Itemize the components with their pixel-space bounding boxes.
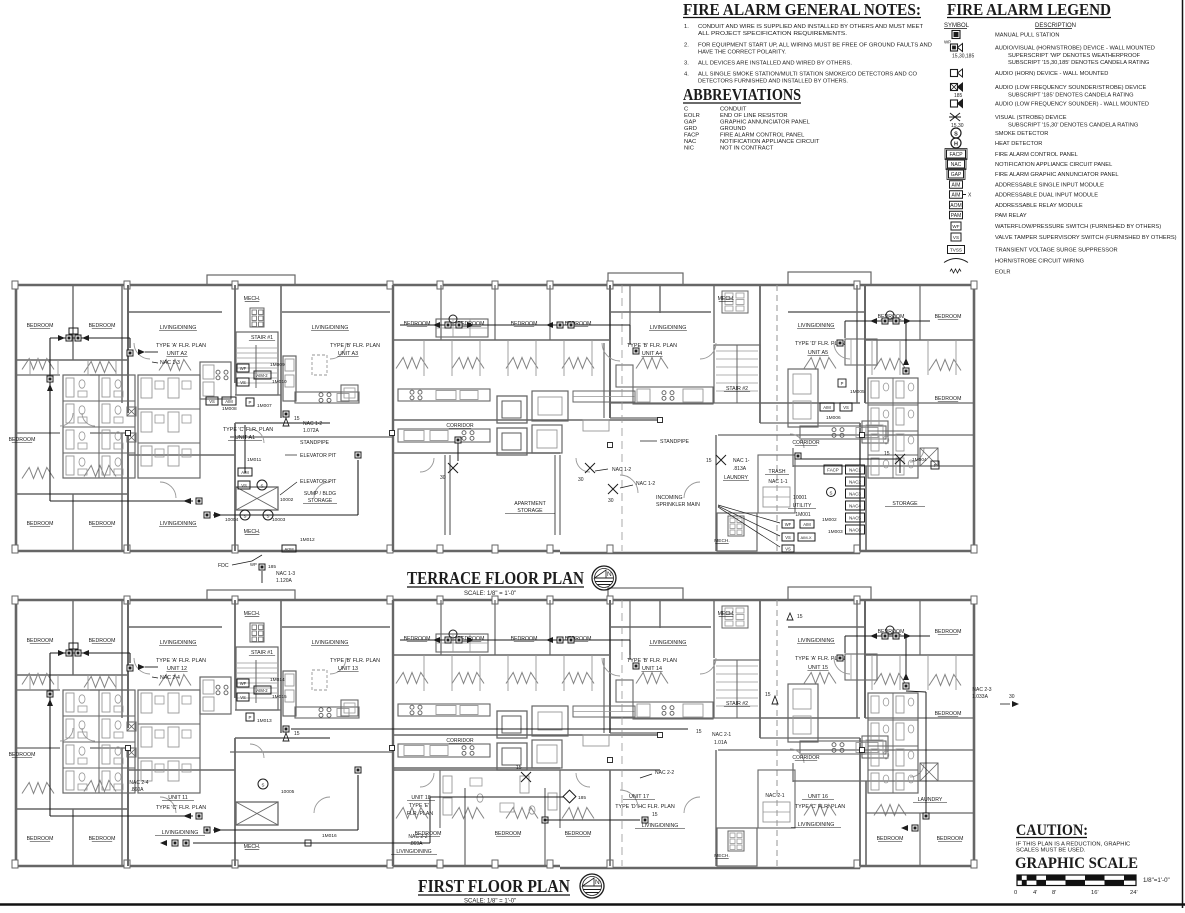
svg-text:BEDROOM: BEDROOM <box>89 521 116 527</box>
svg-text:30: 30 <box>608 498 614 504</box>
sheet border bottom <box>0 903 1185 906</box>
svg-text:WATERFLOW/PRESSURE SWITCH (FUR: WATERFLOW/PRESSURE SWITCH (FURNISHED BY … <box>995 224 1161 230</box>
svg-text:AIM-2: AIM-2 <box>256 373 268 378</box>
AIM symbol <box>950 181 1105 189</box>
FIRST FLOOR PLAN title <box>418 876 570 905</box>
svg-text:PAM: PAM <box>951 213 961 219</box>
svg-text:UNIT 15: UNIT 15 <box>808 665 828 671</box>
svg-text:BEDROOM: BEDROOM <box>27 638 54 644</box>
TVSS symbol <box>948 246 1118 254</box>
svg-text:ELEVATOR PIT: ELEVATOR PIT <box>300 453 337 459</box>
addressable modules near stair 1 <box>237 677 287 724</box>
svg-text:10004: 10004 <box>225 517 239 523</box>
svg-text:MECH.: MECH. <box>714 538 729 544</box>
mech room bottom right <box>717 513 757 551</box>
first floor bottom-center unit walls <box>393 770 660 866</box>
svg-text:P: P <box>249 400 252 405</box>
svg-text:AIM-X: AIM-X <box>800 535 811 540</box>
svg-text:TYPE 'C' FLR. PLAN: TYPE 'C' FLR. PLAN <box>223 427 273 433</box>
svg-text:MECH.: MECH. <box>718 611 735 617</box>
svg-text:GAP: GAP <box>951 172 962 178</box>
unit type labels top <box>156 341 845 357</box>
svg-text:BEDROOM: BEDROOM <box>495 831 522 837</box>
svg-text:BEDROOM: BEDROOM <box>27 836 54 842</box>
svg-text:LAUNDRY: LAUNDRY <box>724 475 748 481</box>
svg-text:1M016: 1M016 <box>322 833 337 839</box>
graphic scale bar <box>1014 875 1170 896</box>
svg-text:NAC 2-1: NAC 2-1 <box>712 732 731 738</box>
window/closet chevron symbols <box>22 673 961 819</box>
svg-text:STAIR #2: STAIR #2 <box>726 701 748 707</box>
svg-text:1.072A: 1.072A <box>303 428 320 434</box>
svg-text:UTILITY: UTILITY <box>793 503 812 509</box>
svg-text:VISUAL (STROBE) DEVICE: VISUAL (STROBE) DEVICE <box>995 115 1067 121</box>
svg-text:P: P <box>934 463 937 468</box>
svg-text:BEDROOM: BEDROOM <box>935 629 962 635</box>
type C unit labels <box>223 427 273 441</box>
svg-text:CONDUIT: CONDUIT <box>720 107 747 113</box>
svg-text:NAC 2-3: NAC 2-3 <box>972 687 991 693</box>
title: FIRE ALARM GENERAL NOTES <box>683 0 921 19</box>
svg-text:1M003: 1M003 <box>828 529 843 535</box>
svg-text:ALL PROJECT SPECIFICATION REQU: ALL PROJECT SPECIFICATION REQUIREMENTS. <box>698 31 847 37</box>
svg-text:15: 15 <box>294 731 300 737</box>
svg-text:SUBSCRIPT '185' DENOTES CANDEL: SUBSCRIPT '185' DENOTES CANDELA RATING <box>1008 92 1134 98</box>
LF sounder/strobe symbol <box>951 83 1147 99</box>
svg-text:SCALES MUST BE USED.: SCALES MUST BE USED. <box>1016 848 1086 854</box>
svg-text:BEDROOM: BEDROOM <box>9 437 36 443</box>
svg-text:UNIT A5: UNIT A5 <box>808 350 828 356</box>
svg-text:MECH.: MECH. <box>244 296 261 302</box>
svg-text:EOLR: EOLR <box>995 270 1011 276</box>
svg-text:TYPE 'D' HC FLR. PLAN: TYPE 'D' HC FLR. PLAN <box>615 804 675 810</box>
sheet border right <box>1182 0 1184 908</box>
svg-text:SMOKE DETECTOR: SMOKE DETECTOR <box>995 131 1048 137</box>
smoke detector circle mid <box>258 779 337 846</box>
NAC wiring right unit <box>837 626 930 689</box>
svg-text:NAC6: NAC6 <box>849 528 861 533</box>
NAC wiring unit A2 <box>127 664 180 681</box>
circuit wiring symbol <box>944 259 1084 265</box>
svg-text:TYPE 'C' FLR. PLAN: TYPE 'C' FLR. PLAN <box>156 805 206 811</box>
svg-text:24': 24' <box>1130 890 1138 896</box>
svg-text:VS: VS <box>209 399 215 404</box>
svg-text:CORRIDOR: CORRIDOR <box>446 423 474 429</box>
svg-text:.813A: .813A <box>733 466 747 472</box>
svg-text:FLR. PLAN: FLR. PLAN <box>407 811 433 817</box>
svg-text:BEDROOM: BEDROOM <box>511 321 538 327</box>
GRAPHIC SCALE heading <box>1015 855 1138 872</box>
svg-text:APARTMENT: APARTMENT <box>514 501 546 507</box>
svg-text:AIM: AIM <box>803 522 811 527</box>
svg-text:UNIT A4: UNIT A4 <box>642 351 662 357</box>
svg-text:BEDROOM: BEDROOM <box>935 396 962 402</box>
svg-text:NAC 1-2: NAC 1-2 <box>636 481 655 487</box>
svg-text:ADDRESSABLE SINGLE INPUT MODUL: ADDRESSABLE SINGLE INPUT MODULE <box>995 183 1104 189</box>
NAC wiring right unit <box>837 311 930 374</box>
TERRACE FLOOR PLAN title <box>407 568 584 597</box>
svg-text:FACP: FACP <box>949 152 963 158</box>
svg-text:BEDROOM: BEDROOM <box>89 836 116 842</box>
svg-text:NAC5: NAC5 <box>849 516 861 521</box>
svg-text:ELEVATOR PIT: ELEVATOR PIT <box>300 479 337 485</box>
svg-text:NAC 1-1: NAC 1-1 <box>768 479 787 485</box>
svg-text:1.120A: 1.120A <box>276 578 293 584</box>
svg-text:S: S <box>261 484 264 489</box>
svg-text:ABBREVIATIONS: ABBREVIATIONS <box>683 85 801 104</box>
svg-text:CONDUIT AND WIRE IS SUPPLIED A: CONDUIT AND WIRE IS SUPPLIED AND INSTALL… <box>698 24 923 30</box>
utility room walls right <box>793 448 974 551</box>
svg-text:STAIR #1: STAIR #1 <box>251 650 273 656</box>
standpipe wiring mid <box>440 437 631 483</box>
svg-text:AOM: AOM <box>950 203 961 209</box>
svg-text:BEDROOM: BEDROOM <box>9 752 36 758</box>
corridor labels <box>446 423 820 446</box>
TERRACE floor plan <box>12 272 977 553</box>
svg-text:185: 185 <box>578 795 586 801</box>
stair core STAIR 2 <box>714 606 760 718</box>
svg-text:WP: WP <box>250 562 257 567</box>
scattered module labels <box>283 692 778 741</box>
NAC wiring circuit left <box>47 328 361 518</box>
svg-text:CORRIDOR: CORRIDOR <box>446 738 474 744</box>
svg-text:AIM: AIM <box>952 193 961 199</box>
svg-text:GAP: GAP <box>684 120 696 126</box>
svg-text:15: 15 <box>884 451 890 457</box>
svg-text:S: S <box>262 783 265 788</box>
svg-text:LIVING/DINING: LIVING/DINING <box>312 640 349 646</box>
corridor labels <box>446 738 820 761</box>
svg-text:TVSS: TVSS <box>950 248 962 253</box>
svg-text:AUDIO (LOW FREQUENCY SOUNDER): AUDIO (LOW FREQUENCY SOUNDER) - WALL MOU… <box>995 102 1149 108</box>
svg-text:15: 15 <box>294 416 300 422</box>
NAC wiring mid bedrooms <box>400 630 639 669</box>
svg-text:15: 15 <box>516 765 522 771</box>
svg-text:NOTIFICATION APPLIANCE CIRCUIT: NOTIFICATION APPLIANCE CIRCUIT <box>720 139 820 145</box>
svg-text:VS: VS <box>785 547 791 552</box>
svg-text:30: 30 <box>1009 694 1015 700</box>
svg-text:H: H <box>954 141 958 147</box>
EOLR symbol <box>950 269 1011 276</box>
NAC wiring mid bedrooms <box>400 315 639 354</box>
svg-text:NOT IN CONTRACT: NOT IN CONTRACT <box>720 146 774 152</box>
AOM symbol <box>950 201 1083 209</box>
heat detector symbol <box>951 138 1042 148</box>
svg-text:MECH.: MECH. <box>718 296 735 302</box>
addressable modules near stair 1 <box>237 362 287 409</box>
audio horn symbol <box>951 69 1109 77</box>
laundry strobe <box>706 455 750 472</box>
svg-text:VS: VS <box>785 535 791 540</box>
svg-text:S: S <box>954 131 958 137</box>
svg-text:NOTIFICATION APPLIANCE CIRCUIT: NOTIFICATION APPLIANCE CIRCUIT PANEL <box>995 162 1112 168</box>
right apartment bath cluster <box>868 693 938 793</box>
stair core STAIR 1 <box>236 623 278 710</box>
svg-text:1M010: 1M010 <box>272 379 287 385</box>
svg-text:1M012: 1M012 <box>300 537 315 543</box>
manual pull station symbol <box>952 31 1059 39</box>
room labels <box>9 296 962 544</box>
svg-text:BEDROOM: BEDROOM <box>415 831 442 837</box>
misc wall devices <box>126 418 865 448</box>
svg-text:PAM RELAY: PAM RELAY <box>995 213 1027 219</box>
NAC 2-3 labels right <box>972 687 1019 707</box>
svg-text:STORAGE: STORAGE <box>308 498 333 504</box>
svg-text:LIVING/DINING: LIVING/DINING <box>396 849 431 855</box>
svg-text:P: P <box>841 381 844 386</box>
svg-text:16': 16' <box>1091 890 1099 896</box>
title: FIRE ALARM LEGEND <box>947 0 1111 19</box>
kitchen counters and fixtures center <box>200 634 888 770</box>
svg-text:UNIT A2: UNIT A2 <box>167 351 187 357</box>
misc wall devices <box>126 733 865 763</box>
svg-text:NAC 1-2: NAC 1-2 <box>612 467 631 473</box>
svg-text:ALL SINGLE SMOKE STATION/MULTI: ALL SINGLE SMOKE STATION/MULTI STATION S… <box>698 72 917 78</box>
first floor right wiring <box>787 613 929 831</box>
svg-text:GRD: GRD <box>684 126 697 132</box>
svg-text:ALL DEVICES ARE INSTALLED AND: ALL DEVICES ARE INSTALLED AND WIRED BY O… <box>698 61 852 67</box>
svg-text:NAC 2-4: NAC 2-4 <box>160 675 180 681</box>
svg-text:BEDROOM: BEDROOM <box>937 836 964 842</box>
svg-text:BEDROOM: BEDROOM <box>89 638 116 644</box>
scattered module labels <box>283 379 865 434</box>
svg-text:STORAGE: STORAGE <box>892 501 918 507</box>
svg-text:FOR EQUIPMENT START UP, ALL WI: FOR EQUIPMENT START UP, ALL WIRING MUST … <box>698 43 932 49</box>
svg-text:4.: 4. <box>684 72 689 78</box>
svg-text:SUBSCRIPT '15,30,185' DENOTES: SUBSCRIPT '15,30,185' DENOTES CANDELA RA… <box>1008 60 1149 66</box>
svg-text:10001: 10001 <box>793 495 807 501</box>
unit type labels top <box>156 656 845 672</box>
LF sounder symbol <box>951 100 1150 108</box>
abbreviations list <box>684 107 820 152</box>
svg-text:15: 15 <box>797 614 803 620</box>
svg-text:1M009: 1M009 <box>270 362 285 368</box>
svg-text:LIVING/DINING: LIVING/DINING <box>160 521 197 527</box>
closet partition stubs <box>30 340 956 376</box>
corridor <box>621 600 623 866</box>
svg-text:STAIR #1: STAIR #1 <box>251 335 273 341</box>
svg-text:AUDIO (HORN) DEVICE - WALL MOU: AUDIO (HORN) DEVICE - WALL MOUNTED <box>995 71 1108 77</box>
svg-text:CAUTION:: CAUTION: <box>1016 822 1088 839</box>
svg-text:AIM: AIM <box>952 183 961 189</box>
svg-text:FACP: FACP <box>684 133 699 139</box>
svg-text:GRAPHIC SCALE: GRAPHIC SCALE <box>1015 855 1138 872</box>
svg-text:NAC: NAC <box>951 162 962 168</box>
svg-text:1M008: 1M008 <box>222 406 237 412</box>
svg-text:8': 8' <box>1052 890 1056 896</box>
NAC symbol <box>946 159 1112 170</box>
svg-text:AIM-2: AIM-2 <box>256 688 268 693</box>
svg-text:CORRIDOR: CORRIDOR <box>792 440 820 446</box>
general notes text <box>684 24 932 85</box>
svg-text:15: 15 <box>706 458 712 464</box>
svg-text:185: 185 <box>954 93 963 99</box>
svg-text:NAC 1-2: NAC 1-2 <box>303 421 322 427</box>
svg-text:NIC: NIC <box>684 146 694 152</box>
svg-text:FIRE ALARM GRAPHIC ANNUNCIATOR: FIRE ALARM GRAPHIC ANNUNCIATOR PANEL <box>995 172 1119 178</box>
svg-text:STANDPIPE: STANDPIPE <box>660 439 690 445</box>
svg-text:TYPE 'B' FLR. PLAN: TYPE 'B' FLR. PLAN <box>330 343 380 349</box>
exterior walls <box>12 587 977 868</box>
legend column headers <box>944 23 1076 29</box>
svg-text:TERRACE FLOOR PLAN: TERRACE FLOOR PLAN <box>407 568 584 588</box>
svg-text:1.033A: 1.033A <box>972 694 989 700</box>
svg-text:FIRE ALARM GENERAL NOTES:: FIRE ALARM GENERAL NOTES: <box>683 0 921 19</box>
svg-text:NAC2: NAC2 <box>849 480 861 485</box>
svg-text:HEAT DETECTOR: HEAT DETECTOR <box>995 141 1042 147</box>
svg-text:WF: WF <box>240 681 247 686</box>
svg-text:1M001: 1M001 <box>795 512 811 518</box>
door swing arcs <box>60 343 924 498</box>
north arrow terrace <box>592 566 616 590</box>
svg-text:HORN/STROBE CIRCUIT WIRING: HORN/STROBE CIRCUIT WIRING <box>995 259 1084 265</box>
svg-text:LAUNDRY: LAUNDRY <box>918 797 943 803</box>
svg-text:WF: WF <box>952 224 959 229</box>
svg-text:NAC: NAC <box>684 139 696 145</box>
svg-text:BEDROOM: BEDROOM <box>27 521 54 527</box>
svg-text:FIRE ALARM CONTROL PANEL: FIRE ALARM CONTROL PANEL <box>720 133 805 139</box>
svg-text:NAC 1-3: NAC 1-3 <box>276 571 295 577</box>
svg-text:STANDPIPE: STANDPIPE <box>300 440 330 446</box>
svg-text:30: 30 <box>440 475 446 481</box>
right apartment bath cluster <box>868 378 938 478</box>
svg-text:15,30,185: 15,30,185 <box>952 54 974 60</box>
trash room <box>758 770 795 828</box>
svg-text:N: N <box>607 571 612 578</box>
svg-text:VS: VS <box>953 235 959 240</box>
terrace-only labels <box>280 439 925 514</box>
svg-text:FIRST FLOOR PLAN: FIRST FLOOR PLAN <box>418 876 570 896</box>
svg-text:SPRINKLER MAIN: SPRINKLER MAIN <box>656 502 700 508</box>
exterior walls <box>12 272 977 553</box>
svg-text:1M002: 1M002 <box>822 517 837 523</box>
svg-text:15: 15 <box>652 812 658 818</box>
svg-text:S: S <box>267 514 270 519</box>
svg-text:TYPE 'C' FLR. PLAN: TYPE 'C' FLR. PLAN <box>795 804 845 810</box>
svg-text:TYPE 'A' FLR. PLAN: TYPE 'A' FLR. PLAN <box>156 658 206 664</box>
svg-text:NAC 1-3: NAC 1-3 <box>160 360 180 366</box>
FACP symbol <box>945 149 1078 160</box>
svg-text:NAC4: NAC4 <box>849 504 861 509</box>
incoming sprinkler detail <box>718 505 843 552</box>
svg-text:CORRIDOR: CORRIDOR <box>792 755 820 761</box>
FDC assembly below plan <box>218 555 295 584</box>
svg-text:MECH.: MECH. <box>244 611 261 617</box>
stair core STAIR 2 <box>714 291 760 403</box>
WF symbol <box>951 222 1161 230</box>
svg-text:SCALE: 1/8" = 1'-0": SCALE: 1/8" = 1'-0" <box>464 591 516 597</box>
svg-text:LIVING/DINING: LIVING/DINING <box>650 325 687 331</box>
svg-text:SUMP / BLDG: SUMP / BLDG <box>304 491 336 497</box>
svg-text:1.01A: 1.01A <box>714 740 728 746</box>
svg-text:NAC 2-1: NAC 2-1 <box>765 793 784 799</box>
svg-text:BEDROOM: BEDROOM <box>935 711 962 717</box>
svg-text:NAC 2-2: NAC 2-2 <box>655 770 674 776</box>
svg-text:SCALE: 1/8" = 1'-0": SCALE: 1/8" = 1'-0" <box>464 899 516 905</box>
svg-text:END OF LINE RESISTOR: END OF LINE RESISTOR <box>720 113 788 119</box>
svg-text:STORAGE: STORAGE <box>517 508 543 514</box>
svg-text:MECH.: MECH. <box>244 529 261 535</box>
svg-text:BEDROOM: BEDROOM <box>935 314 962 320</box>
svg-text:1M006: 1M006 <box>826 415 841 421</box>
svg-text:BEDROOM: BEDROOM <box>404 636 431 642</box>
smoke detector symbol <box>951 128 1048 138</box>
svg-text:MECH.: MECH. <box>714 853 729 859</box>
svg-text:WF: WF <box>785 522 792 527</box>
svg-text:DETECTORS FURNISHED AND INSTAL: DETECTORS FURNISHED AND INSTALLED BY OTH… <box>698 79 848 85</box>
svg-text:10005: 10005 <box>281 789 295 795</box>
svg-text:VS: VS <box>240 380 246 385</box>
svg-text:S: S <box>244 514 247 519</box>
svg-text:EOLR: EOLR <box>684 113 700 119</box>
svg-text:UNIT 13: UNIT 13 <box>338 666 358 672</box>
stair core STAIR 1 <box>236 308 278 395</box>
VS symbol <box>951 233 1177 241</box>
svg-text:4': 4' <box>1033 890 1037 896</box>
apartment storage columns <box>445 455 560 535</box>
storage strobe 30 <box>608 481 655 504</box>
first floor mid-bottom devices <box>160 765 674 846</box>
svg-text:LIVING/DINING: LIVING/DINING <box>650 640 687 646</box>
svg-text:30: 30 <box>578 477 584 483</box>
svg-text:C: C <box>684 107 688 113</box>
svg-text:1M015: 1M015 <box>272 694 287 700</box>
svg-text:ADDRESSABLE DUAL INPUT MODULE: ADDRESSABLE DUAL INPUT MODULE <box>995 193 1098 199</box>
svg-text:NAC3: NAC3 <box>849 492 861 497</box>
svg-text:BEDROOM: BEDROOM <box>404 321 431 327</box>
svg-text:1.: 1. <box>684 24 689 30</box>
svg-text:1M007: 1M007 <box>257 403 272 409</box>
svg-text:BEDROOM: BEDROOM <box>511 636 538 642</box>
svg-text:1M005: 1M005 <box>850 389 865 395</box>
svg-text:HAVE THE CORRECT POLARITY.: HAVE THE CORRECT POLARITY. <box>698 50 786 56</box>
svg-text:WF: WF <box>240 366 247 371</box>
svg-text:VS: VS <box>240 695 246 700</box>
svg-text:BEDROOM: BEDROOM <box>565 831 592 837</box>
svg-text:MANUAL PULL STATION: MANUAL PULL STATION <box>995 33 1059 39</box>
strobe symbol <box>949 113 1138 129</box>
svg-text:.869A: .869A <box>409 841 423 847</box>
svg-text:UNIT 14: UNIT 14 <box>642 666 662 672</box>
svg-text:LIVING/DINING: LIVING/DINING <box>798 638 835 644</box>
kitchen counters and fixtures center <box>200 319 888 455</box>
GAP symbol <box>947 169 1119 180</box>
elevator shaft <box>236 487 278 510</box>
corridor <box>621 285 623 551</box>
svg-text:BEDROOM: BEDROOM <box>27 323 54 329</box>
svg-text:UNIT 17: UNIT 17 <box>629 794 649 800</box>
svg-text:LIVING/DINING: LIVING/DINING <box>312 325 349 331</box>
svg-text:UNIT 18: UNIT 18 <box>411 795 430 801</box>
svg-text:BEDROOM: BEDROOM <box>89 323 116 329</box>
door swing arcs <box>60 658 924 813</box>
title: ABBREVIATIONS <box>683 85 801 104</box>
svg-text:15: 15 <box>765 692 771 698</box>
room labels <box>9 611 962 859</box>
svg-text:FIRE ALARM LEGEND: FIRE ALARM LEGEND <box>947 0 1111 19</box>
svg-text:1M011: 1M011 <box>247 457 262 463</box>
svg-text:P: P <box>249 715 252 720</box>
svg-text:SUBSCRIPT '15,30' DENOTES CAND: SUBSCRIPT '15,30' DENOTES CANDELA RATING <box>1008 122 1138 128</box>
svg-text:TYPE 'E': TYPE 'E' <box>409 803 429 809</box>
svg-text:FDC: FDC <box>218 563 229 569</box>
svg-text:0: 0 <box>1014 890 1017 896</box>
svg-text:LIVING/DINING: LIVING/DINING <box>162 830 199 836</box>
svg-text:10002: 10002 <box>280 497 294 503</box>
svg-text:VALVE TAMPER SUPERVISORY SWITC: VALVE TAMPER SUPERVISORY SWITCH (FURNISH… <box>995 235 1177 241</box>
svg-text:1M004: 1M004 <box>912 457 927 463</box>
svg-text:TRASH: TRASH <box>769 469 786 475</box>
